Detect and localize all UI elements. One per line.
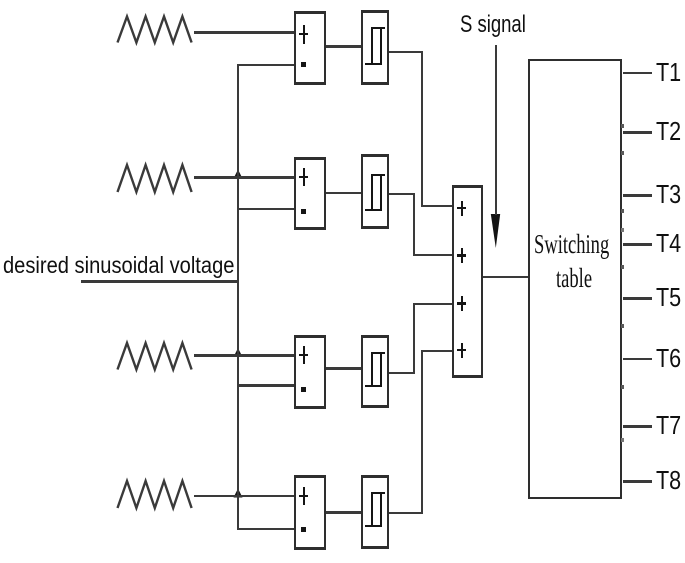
T1 label: [656, 59, 681, 85]
adder plus 2: [461, 248, 464, 263]
relay (hysteresis) block R1: [361, 10, 389, 85]
junction arrow row4: [234, 489, 243, 498]
R2 hysteresis symbol: [371, 174, 385, 176]
switching table block: [528, 59, 622, 499]
wire bus to S1 minus: [237, 64, 294, 67]
adder (4-input summing block): [452, 185, 483, 378]
S2 minus dot: [301, 209, 306, 214]
T3 label: [656, 181, 681, 207]
wire R1 out: [389, 51, 423, 54]
S1 minus dot: [301, 62, 306, 67]
wire into adder input2: [413, 254, 453, 257]
T5 label: [656, 284, 681, 310]
T6 label: [656, 345, 681, 371]
wire R3 out: [389, 372, 415, 375]
T3 stub: [623, 194, 652, 197]
label: S signal: [460, 13, 526, 37]
port marks on switching table right edge: [621, 124, 624, 128]
T8 stub: [623, 480, 652, 483]
S signal arrowhead: [491, 214, 500, 248]
relay block R2: [361, 154, 389, 229]
T2 stub: [623, 131, 652, 134]
R1 hysteresis symbol: [371, 27, 385, 29]
summing block S4: [294, 475, 326, 550]
desired sinusoidal voltage feed line: [81, 280, 239, 284]
wire zigzag4 to sum4: [194, 495, 294, 498]
T4 label: [656, 230, 681, 256]
summing block S3: [294, 335, 326, 409]
wire bus to S3 minus: [237, 384, 294, 387]
wire R2 riser down: [413, 193, 415, 256]
summing block S1: [294, 11, 326, 85]
S1 plus sign: [303, 25, 306, 44]
wire R4 riser up: [421, 351, 423, 514]
zigzag carrier 2: [118, 165, 192, 192]
T5 stub: [623, 297, 652, 300]
T8 label: [656, 467, 681, 493]
relay block R3: [361, 335, 389, 408]
wire bus elbow to S4 minus: [237, 528, 294, 531]
wire R4 out: [389, 512, 423, 515]
wire S3 to R3: [326, 367, 361, 370]
main vertical bus (desired voltage distribution): [237, 64, 239, 530]
R4 hysteresis symbol: [371, 492, 385, 494]
wire adder out to switching table: [483, 276, 528, 279]
label: Switching table: [534, 231, 609, 258]
wire S2 to R2: [326, 192, 361, 195]
junction arrow row2: [234, 170, 243, 179]
zigzag carrier 4: [118, 481, 192, 508]
T6 stub: [623, 358, 652, 361]
T7 label: [656, 412, 681, 438]
S3 plus sign: [303, 346, 306, 364]
wire R3 riser up: [413, 304, 415, 375]
wire zigzag1 to sum1: [194, 31, 294, 34]
wire S1 to relay R1: [326, 45, 361, 48]
S2 plus sign: [303, 168, 306, 186]
R3 hysteresis symbol: [371, 352, 385, 354]
wire bus to S2 minus: [237, 208, 294, 211]
wire zigzag2 to sum2: [194, 176, 294, 179]
T7 stub: [623, 425, 652, 428]
wire S4 to R4: [326, 511, 361, 514]
wire zigzag3 to sum3: [194, 354, 294, 357]
S signal arrow line: [495, 45, 497, 215]
summing block S2: [294, 157, 326, 230]
S4 minus dot: [301, 527, 306, 532]
T2 label: [656, 118, 681, 144]
wire into adder input4: [421, 350, 452, 353]
wire R2 out: [389, 193, 415, 196]
junction arrow row3: [234, 348, 243, 357]
T4 stub: [623, 243, 652, 246]
wire R1 riser down: [421, 51, 423, 207]
S3 minus dot: [301, 387, 306, 392]
T1 stub: [623, 72, 652, 75]
label: desired sinusoidal voltage: [3, 254, 234, 277]
relay block R4: [361, 475, 389, 549]
wire into adder input1: [421, 205, 453, 208]
adder plus 4: [461, 343, 464, 358]
adder plus 1: [461, 201, 464, 216]
S4 plus sign: [303, 487, 306, 505]
wire into adder input3: [413, 303, 452, 306]
adder plus 3: [461, 296, 464, 311]
zigzag carrier 3: [118, 343, 192, 370]
